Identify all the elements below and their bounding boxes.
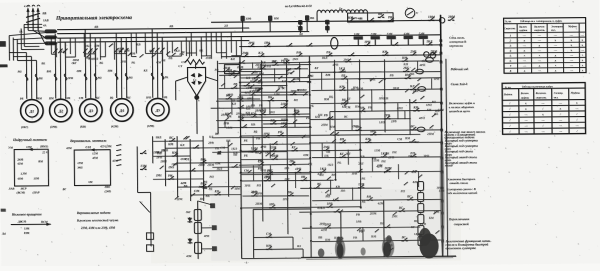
vertical rail x335 xyxy=(334,60,335,180)
contact - xyxy=(348,20,350,22)
contact - xyxy=(323,149,325,151)
rung СМ xyxy=(253,236,292,238)
contact - xyxy=(270,150,272,152)
contact - xyxy=(281,107,283,109)
wire stub xyxy=(417,171,419,187)
capacitor К2 xyxy=(268,16,272,21)
contact - xyxy=(426,44,428,46)
contactor contacts Д4 xyxy=(114,48,118,53)
wire stub xyxy=(351,120,353,130)
contact - xyxy=(410,54,412,56)
square diagram 1 xyxy=(14,149,48,186)
motor Д2 xyxy=(49,99,72,122)
contact - xyxy=(341,102,343,104)
wire stub xyxy=(252,165,254,180)
contact - xyxy=(320,171,322,173)
bottom vertex blob xyxy=(194,95,199,100)
rung wire left-mid xyxy=(177,186,240,189)
contact - xyxy=(278,135,280,137)
rung wire xyxy=(241,115,309,118)
motor Д3 xyxy=(79,99,102,122)
wire stub xyxy=(273,68,275,82)
terminal square 3 xyxy=(212,246,217,251)
wire stub xyxy=(269,165,271,180)
contact - xyxy=(231,87,233,89)
relay box РН xyxy=(224,65,239,74)
thermal overload Д3 xyxy=(84,73,87,80)
ink smudge 2 xyxy=(382,237,395,258)
left feeder bus xyxy=(8,36,10,61)
bottom wire echo xyxy=(306,258,453,260)
rung wire lower xyxy=(300,188,381,189)
contact - xyxy=(239,62,241,64)
rung wire xyxy=(218,127,311,128)
contact - xyxy=(448,19,450,21)
contact - xyxy=(237,100,239,102)
contact - xyxy=(345,61,347,63)
contact - xyxy=(269,207,271,209)
thermal overload Д2 xyxy=(54,74,57,81)
ink smudge rail xyxy=(439,132,445,256)
contact - xyxy=(358,187,360,189)
contact - xyxy=(287,195,289,197)
contact - xyxy=(291,150,293,152)
contact - xyxy=(355,129,357,131)
rung wire xyxy=(263,63,311,66)
contact - xyxy=(413,110,415,112)
capacitor К1 xyxy=(240,16,244,21)
rung wire lower xyxy=(312,240,441,242)
fuse 1П xyxy=(45,29,57,33)
contact - xyxy=(200,162,202,164)
twin coil on bus Л6 xyxy=(424,52,429,57)
contact - xyxy=(286,45,288,47)
contact - xyxy=(288,81,290,83)
electromagnet 1ЭМ xyxy=(354,36,363,39)
transformer leads xyxy=(316,13,318,21)
rung wire left-mid xyxy=(165,147,228,150)
contact - xyxy=(189,170,191,172)
contact - xyxy=(384,226,386,228)
contact - xyxy=(271,158,273,160)
relay coil РД xyxy=(194,242,201,253)
terminal square 2 xyxy=(212,225,217,230)
transformer Тр winding xyxy=(317,10,367,13)
contact - xyxy=(270,123,272,125)
contact - xyxy=(324,227,326,229)
contact - xyxy=(251,151,253,153)
wire: bus to resistor xyxy=(188,41,190,57)
contactor contacts Д5 xyxy=(150,48,154,53)
rung wire xyxy=(219,87,262,89)
bus line Л1 xyxy=(57,28,249,30)
rung wire left-mid xyxy=(153,140,203,142)
contact - xyxy=(409,141,411,143)
vertical rail x218 xyxy=(216,61,219,134)
contact - xyxy=(295,171,297,173)
bridge rectifier ВС (selenium stack) xyxy=(187,67,205,96)
chain link wires xyxy=(189,217,191,223)
wire stub xyxy=(371,89,373,111)
rung wire xyxy=(219,74,288,75)
contact - xyxy=(388,20,390,22)
fuse 3П xyxy=(45,41,57,45)
resistor R ballast xyxy=(185,59,204,64)
three-phase supply entry xyxy=(27,8,29,30)
rung wire xyxy=(311,89,442,90)
rung wire lower xyxy=(312,199,443,200)
contact - xyxy=(301,179,303,181)
contact - xyxy=(339,71,341,73)
relay coil РН xyxy=(194,222,201,233)
rung НМ xyxy=(254,248,303,250)
contact НМ xyxy=(266,248,268,250)
contact - xyxy=(249,94,251,96)
rung wire xyxy=(242,113,310,116)
contact - xyxy=(326,55,328,57)
wire stub xyxy=(397,164,399,179)
contact - xyxy=(333,211,335,213)
contact - xyxy=(268,100,270,102)
contact - xyxy=(283,62,285,64)
contact - xyxy=(263,136,265,138)
dash column left-mid xyxy=(116,145,121,146)
rung wire xyxy=(330,110,443,111)
resistor block a xyxy=(146,233,153,240)
wire stub xyxy=(321,143,323,158)
contact - xyxy=(140,152,142,154)
wire stub xyxy=(347,79,349,103)
branch wires for motor Д2 xyxy=(54,34,57,99)
table 2: Таблица включения подач xyxy=(502,83,585,135)
rung wire left-mid xyxy=(212,166,262,168)
contact - xyxy=(294,68,296,70)
wire stub xyxy=(252,136,254,150)
diode xyxy=(188,239,193,243)
table 1: Таблица включения электромагнитов xyxy=(504,18,586,74)
rung wire xyxy=(309,61,439,62)
vertical rail x385 xyxy=(383,59,386,132)
rung wire left-mid xyxy=(241,143,310,146)
wire: switch to fuses xyxy=(28,30,45,31)
ink smudge 3 xyxy=(318,248,324,257)
coil link wire xyxy=(420,212,422,214)
thermal overload Д1 xyxy=(25,74,28,81)
contact - xyxy=(337,240,339,242)
rung wire xyxy=(240,76,308,79)
vertical rail x362 lower xyxy=(362,227,364,241)
contact - xyxy=(264,180,266,182)
vertical x152 chain xyxy=(152,136,154,163)
contact - xyxy=(228,74,230,76)
rung wire xyxy=(309,78,440,80)
contact - xyxy=(238,119,240,121)
rung wire xyxy=(239,93,308,96)
electromagnet 4ЭМ xyxy=(404,36,413,39)
contactor hook connections xyxy=(50,38,52,54)
scan shading bottom xyxy=(151,189,462,264)
contact - xyxy=(238,107,240,109)
contact - xyxy=(200,186,202,188)
contactor contacts Д2 xyxy=(53,49,57,54)
motor Д1 xyxy=(20,99,43,122)
electromagnet 2ЭМ xyxy=(371,36,380,39)
control box near transformer xyxy=(347,13,393,22)
contact - xyxy=(267,173,269,175)
wire stub xyxy=(269,101,271,114)
square diagram 2 xyxy=(74,150,110,186)
coil chain vertical xyxy=(197,201,200,259)
contact - xyxy=(367,199,369,201)
contact - xyxy=(356,171,358,173)
contact - xyxy=(281,126,283,128)
contact - xyxy=(226,98,228,100)
edge mark left 1 xyxy=(0,64,7,67)
rung wire xyxy=(311,102,441,103)
contact - xyxy=(403,70,405,72)
vertical rail x383 lower xyxy=(383,200,385,256)
contact - xyxy=(293,113,295,115)
wire stub xyxy=(252,95,254,108)
contact - xyxy=(359,110,361,112)
contact - xyxy=(332,199,334,201)
wire group to motor 1 xyxy=(9,51,26,53)
vertical x165 chain xyxy=(164,139,166,186)
rail junction squares xyxy=(439,39,442,42)
wire: resistor to bridge xyxy=(194,64,196,69)
contact - xyxy=(410,156,412,158)
bottom long wire xyxy=(301,256,456,257)
contact - xyxy=(326,206,328,208)
rung wire xyxy=(216,120,286,121)
contact - xyxy=(252,81,254,83)
contact - xyxy=(242,55,244,57)
bus line Л4 xyxy=(57,40,249,42)
wire: bridge left lead xyxy=(176,77,188,81)
contact - xyxy=(339,89,341,91)
contact - xyxy=(140,168,142,170)
contact - xyxy=(289,164,291,166)
contact - xyxy=(168,178,170,180)
scattered labels clutter xyxy=(72,40,445,250)
vertical rail x360 xyxy=(359,59,360,207)
vertical x177 chain xyxy=(176,136,179,197)
bus line Л7 xyxy=(221,55,440,57)
contact - xyxy=(370,134,372,136)
contact - xyxy=(231,166,233,168)
bus line Л6 xyxy=(239,45,440,47)
wire stub xyxy=(351,188,353,201)
diag wire xyxy=(140,201,150,212)
meter circle xyxy=(405,8,415,18)
wire stub xyxy=(224,121,226,128)
wire РН link xyxy=(238,68,240,70)
contact - xyxy=(430,54,432,56)
fuse 2П xyxy=(45,35,57,39)
contact - xyxy=(223,70,225,72)
vertical rail right outer xyxy=(446,59,448,257)
contact - xyxy=(384,171,386,173)
sub-circuit frame wire xyxy=(252,209,254,257)
ink smudge 4 small xyxy=(361,247,366,255)
rung wire lower xyxy=(239,163,309,166)
wire stub xyxy=(320,72,322,89)
contact - xyxy=(333,134,335,136)
wire: bridge right lead xyxy=(206,77,218,81)
rung wire left-mid xyxy=(191,194,241,196)
contact ВК xyxy=(378,16,380,18)
coil at rung 72 xyxy=(416,69,424,74)
wire stub xyxy=(251,62,253,68)
vertical rail x340 lower xyxy=(340,212,342,257)
dark blob under coil column xyxy=(419,233,438,258)
rung wire xyxy=(335,130,443,131)
contact - xyxy=(368,20,370,22)
rung wire lower xyxy=(302,227,420,228)
wire stub xyxy=(347,150,349,165)
electromagnet 3ЭМ xyxy=(387,36,396,39)
vertical rail x310 xyxy=(309,56,311,258)
input curl 2 xyxy=(32,5,35,6)
input assembly extra wiring xyxy=(24,23,42,25)
coil link wire xyxy=(420,190,422,192)
diode xyxy=(187,218,192,222)
rung wire xyxy=(310,71,440,73)
rung wire xyxy=(239,84,287,87)
vertical rail x240 xyxy=(240,57,242,259)
rung wire xyxy=(211,107,309,108)
fuse block left xyxy=(298,20,302,25)
coil on bus Л6 xyxy=(331,37,338,49)
relay coil 2ПМ xyxy=(418,225,424,234)
wire stub xyxy=(223,76,225,89)
contact - xyxy=(244,85,246,87)
vertical rail x262 xyxy=(261,60,262,221)
wire stub xyxy=(231,102,233,115)
rung wire left-mid xyxy=(165,170,228,173)
rung wire left-mid xyxy=(241,173,310,176)
rung wire lower xyxy=(240,207,361,208)
contact - xyxy=(255,91,257,93)
contact - xyxy=(214,194,216,196)
input terminal dots xyxy=(27,23,29,25)
contactor contacts Д3 xyxy=(83,48,87,53)
thermal overload Д4 xyxy=(115,73,118,80)
contact - xyxy=(272,64,274,66)
contact - xyxy=(290,94,292,96)
rung wire xyxy=(240,68,308,71)
contact - xyxy=(296,55,298,57)
contact - xyxy=(384,118,386,120)
contact - xyxy=(399,210,401,212)
rung wire xyxy=(241,92,308,93)
wire stub xyxy=(294,172,296,188)
rung wire lower xyxy=(241,179,333,182)
wire stub xyxy=(431,79,433,89)
contact - xyxy=(306,45,308,47)
rung wire left-mid xyxy=(177,162,240,165)
relay coil ПМ xyxy=(418,236,424,245)
vertical rail x410 partial xyxy=(409,99,411,135)
wire stub xyxy=(371,157,373,171)
contact - xyxy=(364,44,366,46)
contact - xyxy=(405,77,407,79)
contact - xyxy=(381,156,383,158)
relay coil РВ xyxy=(418,203,424,212)
coil at rung 62 xyxy=(425,58,433,63)
rung wire left-mid xyxy=(153,178,203,180)
wire stub xyxy=(294,108,296,127)
contact - xyxy=(402,60,404,62)
bus line top Л5 xyxy=(211,20,440,22)
relay coil 1КЛ xyxy=(417,181,423,190)
junction blob x218 xyxy=(218,151,221,154)
contact - xyxy=(392,44,394,46)
lamp ЛО xyxy=(439,18,444,23)
edge mark left 2 xyxy=(1,209,6,212)
branch wires for motor Д3 xyxy=(84,29,87,98)
rung wire lower xyxy=(242,194,309,197)
rung wire xyxy=(239,80,310,83)
rung wire left-mid xyxy=(153,155,190,157)
rung wire lower xyxy=(312,156,441,157)
contact - xyxy=(259,114,261,116)
wire stub xyxy=(397,103,399,119)
contact - xyxy=(172,155,174,157)
vertical x190 chain xyxy=(189,139,192,201)
rung wire lower xyxy=(299,211,441,213)
coil at rung 90 xyxy=(418,87,426,92)
rung wire xyxy=(216,99,288,102)
motor Д4 xyxy=(110,99,133,122)
bus line Л3 xyxy=(57,35,440,38)
contact - xyxy=(339,156,341,158)
knife switch АВ xyxy=(26,13,40,17)
vertical rail right main xyxy=(440,15,442,257)
wire stub xyxy=(416,61,418,71)
coil at rung 130 xyxy=(417,127,425,132)
relay coil КГ xyxy=(418,192,424,201)
contact - xyxy=(407,199,409,201)
contact - xyxy=(264,45,266,47)
contact - xyxy=(410,89,412,91)
ink smudge top of blob column xyxy=(419,228,431,246)
rung wire xyxy=(217,70,262,73)
coil link wire xyxy=(420,234,422,236)
contact - xyxy=(365,141,367,143)
contact - xyxy=(259,68,261,70)
wire stub xyxy=(404,111,406,119)
rung wire left-mid xyxy=(212,136,310,139)
capacitor К3 xyxy=(305,15,309,20)
input curl 1 xyxy=(27,5,30,6)
thermal overload Д5 xyxy=(151,73,154,80)
rung wire xyxy=(218,62,309,63)
contact - xyxy=(169,140,171,142)
contact - xyxy=(410,129,412,131)
contact - xyxy=(327,118,329,120)
coil link wire xyxy=(420,201,422,203)
wire: link vertical x137 xyxy=(136,146,138,192)
junction dots upper xyxy=(239,62,241,64)
relay coil 1ВМ xyxy=(194,209,201,220)
sub-circuit link wire xyxy=(292,237,294,249)
rung wire xyxy=(263,122,310,125)
ink smudge 1 xyxy=(335,238,346,259)
bus line Л2 xyxy=(57,31,309,33)
scan shading center xyxy=(209,55,451,261)
contact - xyxy=(241,126,243,128)
